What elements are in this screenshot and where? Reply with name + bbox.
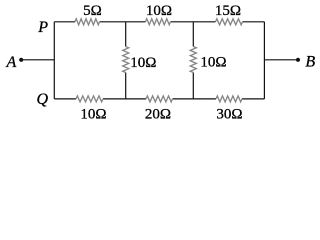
svg-text:10Ω: 10Ω	[146, 3, 172, 19]
svg-text:5Ω: 5Ω	[83, 3, 102, 19]
svg-text:P: P	[37, 19, 48, 36]
svg-text:A: A	[6, 54, 17, 71]
svg-text:15Ω: 15Ω	[215, 3, 241, 19]
svg-text:10Ω: 10Ω	[200, 54, 226, 70]
svg-text:10Ω: 10Ω	[80, 106, 106, 121]
svg-text:Q: Q	[37, 91, 49, 108]
svg-text:30Ω: 30Ω	[216, 106, 242, 121]
svg-text:B: B	[305, 54, 315, 71]
svg-text:20Ω: 20Ω	[145, 106, 171, 121]
svg-text:10Ω: 10Ω	[130, 55, 156, 71]
